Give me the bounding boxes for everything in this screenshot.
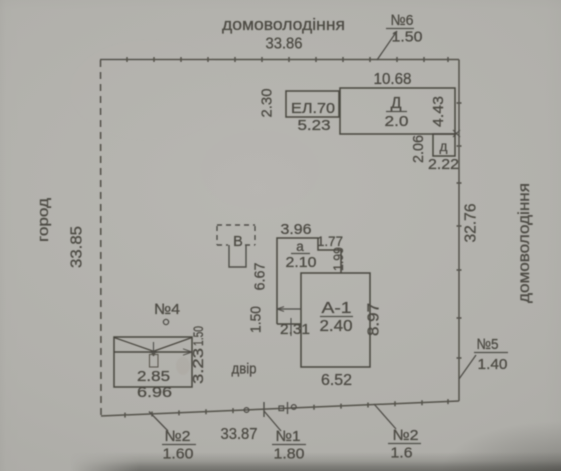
svg-text:1.50: 1.50 (248, 306, 265, 333)
svg-text:1.50: 1.50 (392, 29, 423, 46)
wire: №4 inner line (114, 351, 192, 353)
svg-text:№2: №2 (393, 427, 419, 444)
building ЕЛ.70 outline (286, 91, 339, 117)
svg-text:А-1: А-1 (322, 300, 352, 317)
node gate circle 2 (291, 405, 296, 410)
wire: notch bottom line (277, 323, 301, 325)
node arrow right of №4 (183, 349, 192, 355)
node gate tick (287, 402, 289, 414)
wire: leader №2 left (149, 412, 168, 432)
svg-text:д: д (440, 139, 448, 154)
svg-text:8.97: 8.97 (366, 303, 383, 336)
node circle below №4 (163, 319, 168, 324)
svg-text:5.23: 5.23 (298, 117, 331, 134)
svg-text:домоволодіння: домоволодіння (516, 183, 533, 303)
svg-text:двір: двір (232, 362, 257, 378)
node arrow at notch (277, 307, 284, 312)
structure small door in №4 (150, 355, 159, 368)
wire: fraction bar Д (386, 111, 407, 113)
building д outline (433, 134, 455, 156)
svg-text:1.99: 1.99 (330, 247, 346, 271)
svg-text:1.77: 1.77 (317, 233, 343, 249)
wire: plot boundary top (100, 57, 459, 62)
node center arrow №4 (151, 342, 156, 356)
svg-text:2.40: 2.40 (320, 318, 353, 335)
svg-text:33.87: 33.87 (221, 426, 258, 443)
node tick on notch bottom (290, 318, 292, 336)
svg-text:1.6: 1.6 (391, 445, 413, 462)
svg-text:6.67: 6.67 (252, 263, 269, 291)
svg-text:2.0: 2.0 (385, 113, 409, 130)
node gate circle 1 (244, 408, 249, 413)
structure В dashed outline (217, 225, 255, 267)
svg-text:1.60: 1.60 (163, 446, 194, 463)
svg-text:33.85: 33.85 (69, 226, 86, 268)
svg-text:2.30: 2.30 (259, 89, 276, 118)
wire: plot boundary right (457, 60, 462, 402)
svg-text:2.31: 2.31 (280, 321, 310, 338)
svg-text:2.06: 2.06 (410, 135, 427, 163)
wire: plot boundary left (dashed) (100, 60, 103, 416)
node gate post line (263, 402, 265, 417)
node dimension cross at 4.43 end (453, 130, 460, 137)
wire: №4 roof diagonal right (150, 338, 192, 353)
svg-text:а: а (296, 239, 304, 254)
wire: leader №6 (377, 31, 397, 60)
svg-text:№6: №6 (391, 12, 414, 29)
wire: №4 roof diagonal left (114, 338, 157, 353)
node gate square (279, 406, 284, 411)
wire: leader №2 right (374, 404, 396, 429)
svg-text:2.10: 2.10 (286, 254, 317, 271)
svg-text:10.68: 10.68 (374, 71, 412, 88)
svg-text:32.76: 32.76 (463, 204, 480, 243)
building A-1 outline (301, 273, 370, 367)
svg-text:1.40: 1.40 (478, 356, 508, 373)
svg-text:33.86: 33.86 (266, 36, 303, 53)
svg-text:домоволодіння: домоволодіння (222, 15, 345, 34)
svg-text:В: В (233, 234, 243, 250)
wire: plot boundary bottom (101, 399, 459, 418)
building №4 outline (114, 337, 192, 387)
wire: notch dimension line 1.50 (277, 308, 301, 310)
wire: fraction bar а (291, 253, 310, 255)
wire: leader №1 (264, 411, 281, 431)
svg-text:4.43: 4.43 (430, 96, 447, 127)
wire: fraction bar А-1 (320, 316, 353, 318)
svg-text:3.96: 3.96 (281, 221, 312, 238)
svg-text:ЕЛ.70: ЕЛ.70 (291, 100, 335, 117)
svg-text:3.23: 3.23 (190, 348, 207, 384)
svg-text:город: город (36, 197, 52, 242)
svg-text:1.80: 1.80 (274, 446, 305, 463)
svg-text:1.50: 1.50 (190, 326, 206, 346)
paper smudge left of №4 (176, 357, 190, 375)
svg-text:Д: Д (391, 95, 402, 112)
svg-text:2.85: 2.85 (137, 368, 170, 385)
svg-text:№5: №5 (477, 336, 499, 353)
svg-text:6.96: 6.96 (137, 384, 172, 401)
svg-text:6.52: 6.52 (321, 372, 352, 389)
wire: leader №5 (459, 355, 476, 379)
svg-text:№4: №4 (154, 301, 180, 318)
svg-text:2.22: 2.22 (428, 156, 459, 173)
svg-text:№1: №1 (276, 428, 301, 445)
building Д outline (340, 88, 455, 134)
building annex а outline (277, 238, 341, 324)
